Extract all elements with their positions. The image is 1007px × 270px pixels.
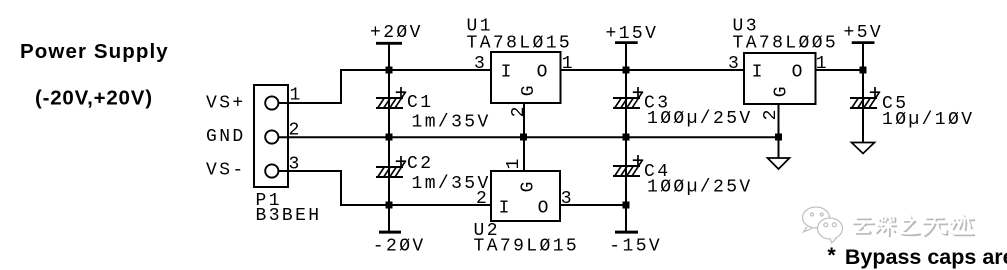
- svg-text:2: 2: [509, 107, 529, 118]
- svg-text:*: *: [827, 243, 836, 267]
- C4 hatch stroke 4: [632, 160, 643, 176]
- watermark logo: [803, 207, 843, 243]
- C1 polarity plus sign: [396, 91, 406, 93]
- C2 polarity plus sign: [396, 160, 406, 162]
- wire U3 output to +5V node: [816, 69, 864, 71]
- wire -20V stub: [388, 205, 390, 231]
- svg-text:G: G: [519, 85, 539, 96]
- wire U1 ground pin stub: [523, 103, 525, 137]
- svg-text:1Øµ/1ØV: 1Øµ/1ØV: [882, 110, 974, 130]
- svg-text:C2: C2: [407, 154, 433, 174]
- wire U3 ground pin stub: [778, 104, 780, 137]
- capacitor C3: [613, 70, 753, 137]
- svg-text:1m/35V: 1m/35V: [412, 113, 491, 133]
- wire pin3 to riser: [279, 170, 342, 172]
- U3 body box: [744, 53, 816, 104]
- C3 bottom plate: [613, 107, 640, 109]
- C5 polarity plus sign: [870, 91, 880, 93]
- svg-text:I: I: [499, 198, 510, 218]
- regulator U1: [467, 17, 576, 137]
- svg-text:(-20V,+20V): (-20V,+20V): [35, 87, 153, 110]
- junction (523.5,137): [520, 134, 527, 141]
- +5V rail bar: [852, 41, 875, 44]
- power symbol -15V: [609, 205, 662, 257]
- svg-text:VS-: VS-: [206, 160, 246, 180]
- -15V rail bar: [615, 231, 638, 234]
- wire +20V rail to U1 input: [340, 69, 491, 71]
- wire through C2: [388, 137, 390, 205]
- junction (863,70): [860, 67, 867, 74]
- wire riser up to +20V rail: [340, 70, 342, 104]
- junction (389,70): [386, 67, 393, 74]
- wire through C1: [388, 70, 390, 137]
- svg-text:+5V: +5V: [844, 23, 884, 43]
- svg-text:+15V: +15V: [606, 24, 659, 44]
- C3 top plate: [613, 97, 640, 99]
- P1 pin 1 circle: [265, 96, 278, 109]
- svg-text:1: 1: [816, 54, 829, 74]
- wire -20V rail to U2 input: [340, 204, 491, 206]
- C5 hatch stroke 4: [869, 92, 880, 108]
- ground symbol under U3: [768, 158, 790, 169]
- C3 hatch stroke 1: [615, 99, 621, 108]
- svg-text:3: 3: [474, 54, 487, 74]
- wire +5V stub: [862, 43, 864, 70]
- wire through C4: [625, 137, 627, 205]
- wire +20V stub: [388, 44, 390, 70]
- svg-text:O: O: [792, 62, 803, 82]
- svg-text:-15V: -15V: [609, 237, 662, 257]
- svg-text:G: G: [518, 182, 538, 193]
- junction (389,137): [386, 134, 393, 141]
- svg-text:1: 1: [504, 159, 524, 170]
- junction (626,137): [623, 134, 630, 141]
- svg-text:I: I: [752, 62, 763, 82]
- svg-text:3: 3: [561, 189, 574, 209]
- svg-text:Power Supply: Power Supply: [20, 40, 169, 63]
- C1 hatch stroke 2: [384, 99, 390, 108]
- C3 hatch stroke 2: [621, 99, 627, 108]
- wire pin1 to riser: [279, 102, 342, 104]
- svg-text:1ØØµ/25V: 1ØØµ/25V: [647, 109, 753, 129]
- capacitor C4: [613, 137, 753, 205]
- C4 hatch stroke 3: [627, 167, 633, 176]
- svg-text:TA78LØ15: TA78LØ15: [467, 34, 573, 54]
- power symbol +15V: [606, 24, 659, 70]
- wire +15V stub: [625, 43, 627, 70]
- C2 bottom plate: [376, 176, 403, 178]
- wire through C3: [625, 70, 627, 137]
- P1 pin 2 circle: [265, 130, 278, 143]
- connector P1 box: [254, 85, 288, 187]
- C4 bottom plate: [613, 175, 640, 177]
- C1 hatch stroke 4: [395, 92, 406, 108]
- svg-text:VS+: VS+: [206, 93, 246, 113]
- C3 hatch stroke 4: [632, 92, 643, 108]
- C4 polarity plus sign: [633, 159, 643, 161]
- C2 hatch stroke 2: [384, 168, 390, 177]
- wire U2 ground pin stub: [523, 137, 525, 171]
- svg-text:O: O: [537, 62, 548, 82]
- svg-text:GND: GND: [206, 127, 246, 147]
- junction (626,70): [623, 67, 630, 74]
- C1 bottom plate: [376, 107, 403, 109]
- svg-text:C1: C1: [407, 93, 433, 113]
- svg-text:+2ØV: +2ØV: [370, 23, 423, 43]
- C2 hatch stroke 3: [390, 168, 396, 177]
- regulator U2: [474, 137, 580, 257]
- power symbol -20V: [373, 205, 426, 257]
- wire U2 output to -15V node: [560, 204, 626, 206]
- wire riser down to -20V rail: [340, 170, 342, 205]
- svg-text:O: O: [538, 198, 549, 218]
- capacitor C1: [376, 70, 491, 137]
- C3 hatch stroke 3: [627, 99, 633, 108]
- C2 hatch stroke 1: [378, 168, 384, 177]
- capacitor C2: [376, 137, 491, 205]
- svg-text:G: G: [771, 86, 791, 97]
- ground below C5: [852, 143, 875, 154]
- svg-text:1ØØµ/25V: 1ØØµ/25V: [647, 178, 753, 198]
- junction (389,205): [386, 202, 393, 209]
- C2 hatch stroke 4: [395, 161, 406, 177]
- -20V rail bar: [379, 231, 401, 234]
- svg-text:2: 2: [476, 189, 489, 209]
- U2 body box: [491, 171, 560, 221]
- C4 hatch stroke 2: [621, 167, 627, 176]
- wire U3 ground to gnd symbol: [778, 137, 780, 158]
- svg-text:TA78LØØ5: TA78LØØ5: [733, 34, 839, 54]
- junction (778.5,137): [775, 134, 782, 141]
- power symbol +20V: [370, 23, 423, 70]
- svg-text:I: I: [501, 62, 512, 82]
- wire -15V stub: [625, 205, 627, 231]
- ground below U3: [768, 137, 790, 169]
- wire GND rail: [279, 136, 780, 138]
- C4 hatch stroke 1: [615, 167, 621, 176]
- C5 top plate: [850, 97, 877, 99]
- svg-text:B3BEH: B3BEH: [256, 206, 322, 226]
- C4 top plate: [613, 165, 640, 167]
- capacitor C5: [850, 70, 974, 143]
- C1 top plate: [376, 97, 403, 99]
- wire U1 output to U3 input: [561, 69, 745, 71]
- svg-text:-2ØV: -2ØV: [373, 237, 426, 257]
- svg-text:Bypass caps are: Bypass caps are: [845, 245, 1007, 269]
- U1 body box: [491, 52, 561, 103]
- C5 bottom plate: [850, 107, 877, 109]
- svg-text:TA79LØ15: TA79LØ15: [474, 237, 580, 257]
- C1 hatch stroke 3: [390, 99, 396, 108]
- C1 hatch stroke 1: [378, 99, 384, 108]
- power symbol +5V: [844, 23, 884, 70]
- wire through C5: [862, 70, 864, 143]
- svg-text:1: 1: [562, 54, 575, 74]
- C5 hatch stroke 2: [858, 99, 864, 108]
- C5 hatch stroke 3: [864, 99, 870, 108]
- C3 polarity plus sign: [633, 91, 643, 93]
- regulator U3: [728, 17, 838, 137]
- junction (626,205): [623, 202, 630, 209]
- P1 pin 3 circle: [265, 164, 278, 177]
- C5 hatch stroke 1: [852, 99, 858, 108]
- +20V rail bar: [376, 42, 402, 45]
- C2 top plate: [376, 166, 403, 168]
- svg-text:3: 3: [728, 54, 741, 74]
- +15V rail bar: [615, 41, 638, 44]
